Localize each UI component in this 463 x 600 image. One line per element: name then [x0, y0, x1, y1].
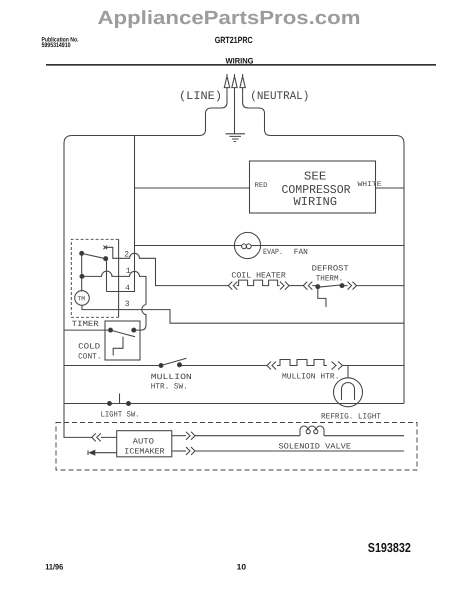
svg-text:10: 10 — [237, 562, 247, 571]
wire: branch to evaporator fan — [135, 245, 235, 247]
light switch S4 on bottom rail — [108, 402, 112, 406]
wire: refrigerator light stem — [347, 366, 349, 378]
wire: timer left vertical to TM motor — [81, 253, 83, 290]
icemaker second input plug — [90, 450, 95, 455]
svg-text:REFRIG. LIGHT: REFRIG. LIGHT — [321, 413, 381, 422]
cold control contacts — [109, 328, 113, 332]
svg-text:EVAP.: EVAP. — [263, 248, 283, 257]
wire: defrost thermostat to right rail — [357, 285, 405, 287]
title rule — [46, 64, 436, 66]
svg-text:SOLENOID VALVE: SOLENOID VALVE — [279, 443, 352, 452]
wire: timer terminal 2 (to coil heater) with jump bump over trunk — [105, 247, 228, 285]
timer box TM (dashed) — [71, 239, 118, 317]
solenoid valve coil K1 — [300, 426, 324, 436]
svg-text:3: 3 — [125, 300, 130, 309]
svg-text:FAN: FAN — [294, 248, 308, 257]
wire: bottom output run — [195, 450, 404, 452]
svg-text:(LINE): (LINE) — [179, 90, 222, 103]
cold control box S1 — [105, 321, 140, 360]
defrost thermostat sensing hook — [318, 289, 326, 307]
svg-text:AppliancePartsPros.com: AppliancePartsPros.com — [98, 8, 361, 29]
svg-text:5995314910: 5995314910 — [42, 42, 71, 49]
junction dot terminal 1 wire — [80, 274, 84, 278]
svg-text:CONT.: CONT. — [78, 353, 102, 362]
connector arrow (bottom output) — [186, 447, 195, 455]
svg-text:GRT21PRC: GRT21PRC — [215, 35, 253, 45]
connector arrow (icemaker input) — [92, 433, 101, 441]
wire: evap fan to right rail — [261, 245, 404, 247]
svg-text:COLD: COLD — [78, 342, 100, 351]
wire: solenoid coil to right — [324, 435, 404, 437]
connector arrow (left of mullion heater) — [267, 362, 276, 370]
timer motor TM — [75, 291, 90, 306]
wire: to solenoid valve coil — [195, 435, 300, 437]
svg-text:HTR. SW.: HTR. SW. — [151, 383, 188, 392]
wire: defrost connector stubs — [312, 285, 347, 287]
heater R2 mullion heater element — [277, 360, 327, 366]
timer switch lever — [82, 253, 106, 258]
svg-text:TM: TM — [77, 296, 85, 303]
wire: connector to icemaker box — [101, 436, 117, 438]
svg-text:S193832: S193832 — [368, 540, 411, 555]
plug prong P3 (neutral) — [242, 74, 244, 95]
wire: TM to terminal 3 run to right rail — [82, 305, 404, 323]
timer fixed contact x-mark — [103, 246, 107, 250]
svg-text:11/96: 11/96 — [45, 562, 64, 571]
wire: icemaker bottom output — [172, 450, 186, 452]
wire: left rail to mullion heater switch — [64, 365, 161, 367]
timer switch pivot contact — [80, 251, 84, 255]
heater R1 coil heater element — [237, 280, 280, 286]
wire: mullion switch to mullion heater — [180, 365, 268, 367]
svg-text:THERM.: THERM. — [316, 275, 344, 284]
connector arrow (right of defrost thermostat) — [348, 282, 357, 290]
wire: lever contact down to terminal 4 wire — [106, 259, 108, 292]
wire: terminal 1 feed bump over wire 3 then into cold control — [136, 305, 146, 331]
svg-text:2: 2 — [124, 251, 129, 260]
connector arrow (right of coil heater) — [280, 282, 289, 290]
svg-text:WIRING: WIRING — [294, 195, 338, 209]
cold control lever — [111, 330, 136, 337]
auto icemaker box U2 — [117, 431, 172, 457]
wire: line prong drop to left rail — [199, 95, 227, 136]
mullion heater switch S2 — [159, 364, 163, 368]
connector arrow (top output) — [186, 432, 195, 440]
svg-text:4: 4 — [125, 284, 130, 293]
plug prong P1 (line) — [226, 74, 228, 95]
svg-text:DEFROST: DEFROST — [312, 265, 349, 274]
wire: top rail left segment with rounded corner to left rail — [64, 136, 199, 404]
svg-text:TIMER: TIMER — [72, 320, 99, 329]
ground symbol — [226, 134, 246, 142]
svg-text:(NEUTRAL): (NEUTRAL) — [250, 90, 309, 103]
wire: second input to icemaker box — [95, 452, 117, 454]
compressor box U1 — [250, 161, 376, 213]
refrigerator light L1 — [334, 378, 363, 407]
plug prong P2 (ground pin) — [234, 74, 236, 134]
defrost thermostat S3 — [316, 285, 320, 289]
wire: bottom rail (neutral return) — [64, 403, 404, 405]
svg-text:LIGHT SW.: LIGHT SW. — [101, 411, 140, 420]
svg-text:MULLION: MULLION — [151, 373, 192, 382]
wire: icemaker top output — [172, 435, 186, 437]
connector arrow (right of mullion heater) — [332, 362, 343, 370]
connector arrow (left of defrost thermostat) — [303, 282, 312, 290]
svg-text:RED: RED — [255, 182, 268, 190]
svg-text:COIL HEATER: COIL HEATER — [231, 271, 286, 280]
wire: red trunk from top rail down to timer terminal 4 — [107, 136, 135, 292]
connector arrow (left of coil heater) — [228, 282, 237, 290]
svg-text:ICEMAKER: ICEMAKER — [124, 447, 165, 456]
svg-text:1: 1 — [126, 267, 131, 276]
timer switch contact dot — [104, 257, 108, 261]
wire: white from compressor box to right rail — [376, 187, 405, 189]
wire: coil heater to defrost thermostat connector — [289, 285, 303, 287]
wire: left rail drop into icemaker circuit — [64, 404, 92, 438]
icemaker dashed enclosure — [56, 423, 417, 471]
svg-text:MULLION HTR.: MULLION HTR. — [282, 373, 340, 382]
wire: left rail to cold control — [64, 329, 111, 331]
svg-text:AUTO: AUTO — [133, 438, 155, 447]
svg-text:SEE: SEE — [304, 170, 327, 184]
wire: top rail right segment with rounded corner and right rail — [271, 136, 405, 404]
wire: terminal 1 with jump bumps to cold control — [82, 271, 146, 304]
cold control bellows hook — [113, 337, 123, 356]
wire: neutral prong drop to right rail — [243, 95, 271, 136]
evaporator fan motor M1 — [234, 232, 260, 258]
wire: mullion heater to right rail — [343, 365, 405, 367]
wire: red branch to compressor box — [135, 187, 250, 189]
